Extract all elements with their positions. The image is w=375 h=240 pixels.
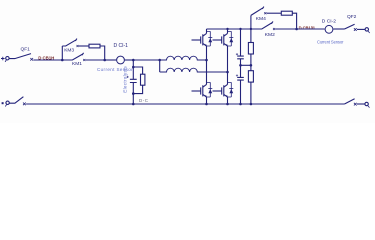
breaker QF2 blade (345, 24, 355, 29)
wire cap-resistor midpoint tie (241, 64, 251, 66)
svg-text:D CI-2: D CI-2 (322, 18, 336, 24)
svg-text:D CI-1: D CI-1 (114, 43, 129, 49)
resistor R5 (precharge) (281, 11, 292, 15)
wire resistor R5 down to node E (292, 13, 296, 29)
node rail-resistor dot (250, 103, 253, 106)
resistor R3 balancing column wire (250, 29, 252, 104)
wire QF2 x to terminal (357, 28, 365, 30)
wire bleed resistor R2 bottom (133, 85, 142, 93)
node DC+ input plus sign (1, 57, 5, 61)
contactor KM3 blade (62, 39, 77, 46)
breaker QF1 blade (9, 54, 31, 59)
node resistor mid dot (250, 64, 253, 67)
node bus-phase2 dot (226, 28, 228, 30)
contactor KM2 blade (251, 21, 273, 29)
node C3 bottom junction dot (132, 92, 135, 95)
wire KM4 to resistor R5 (267, 12, 282, 14)
contactor KM1 contact x (83, 59, 85, 61)
wire KM1 to node B (86, 59, 105, 61)
breaker QF2b blade (345, 99, 355, 104)
breaker QF1b terminal circle (5, 101, 9, 106)
breaker QF2b contact x (354, 103, 357, 106)
breaker QF1b contact x (23, 103, 26, 106)
breaker QF2 terminal circle (365, 28, 370, 33)
capacitor C1 electrolytic branch vertical wire (132, 60, 134, 104)
breaker QF2 contact x (354, 28, 357, 31)
wire node D down to lower inductor (159, 60, 161, 72)
svg-text:Electrolysis: Electrolysis (123, 66, 128, 93)
wire to bleed resistor R2 (133, 67, 142, 74)
current sensor D CI-2 circle (325, 25, 333, 33)
node phase2 junction dot (226, 71, 229, 74)
node rail junction dot (132, 103, 135, 106)
resistor R3 (upper balance) (248, 43, 253, 55)
IGBT Q3 (lower left) (192, 82, 213, 104)
contactor KM2 contact x (273, 28, 275, 30)
node C2 top junction dot (132, 66, 135, 69)
node cap top dot (239, 28, 241, 30)
node A junction dot (61, 59, 64, 62)
breaker QF1 contact x (30, 58, 33, 61)
wire node B to current sensor CI-1 (105, 59, 117, 61)
resistor R4 (lower balance) (248, 71, 253, 82)
breaker QF1 terminal circle (5, 57, 9, 62)
svg-text:D-C: D-C (139, 98, 149, 103)
capacitor C2 plates (237, 56, 244, 59)
wire node E to current sensor CI-2 (297, 28, 325, 30)
svg-text:Current Sensor: Current Sensor (317, 39, 344, 44)
node DC- terminal dot (2, 102, 4, 104)
node B junction dot (103, 59, 106, 62)
capacitor C3 polarity plus (236, 74, 238, 76)
svg-text:D CB1H: D CB1H (38, 56, 54, 61)
contactor KM4 blade (251, 7, 264, 16)
contactor KM4 contact x (264, 12, 266, 14)
breaker QF2b terminal circle (365, 102, 370, 107)
svg-text:KM2: KM2 (265, 32, 275, 38)
svg-text:KM4: KM4 (256, 16, 266, 22)
node C junction dot (132, 59, 135, 62)
wire KM4 branch up (250, 15, 252, 29)
IGBT Q1 (upper left) (192, 29, 213, 46)
node D junction dot (158, 59, 161, 62)
svg-text:QF2: QF2 (347, 14, 357, 20)
IGBT Q2 (upper right) (213, 29, 234, 46)
capacitor C2 polarity plus (236, 53, 238, 55)
resistor R1 (precharge) (89, 44, 100, 48)
inductor L1 (upper) (160, 56, 207, 60)
node rail-cap dot (239, 103, 242, 106)
node rail-phase1 dot (205, 103, 208, 106)
wire QF1 to node A (33, 59, 62, 61)
wire QF2b x to terminal (357, 103, 365, 105)
svg-text:KM3: KM3 (64, 47, 74, 53)
breaker QF1b blade (9, 97, 23, 104)
wire node A up to KM3 branch (61, 46, 63, 60)
wire KM3 to resistor R1 (79, 45, 89, 47)
svg-text:Current Sensor: Current Sensor (97, 67, 133, 72)
resistor R2 (bleed) (141, 74, 145, 85)
capacitor C2 DC-link column wire (240, 29, 242, 104)
wire sensor CI-1 to node C (125, 59, 134, 61)
node resistor top dot (250, 28, 252, 30)
node cap mid dot (239, 64, 242, 67)
current sensor D CI-1 circle (117, 56, 125, 64)
wire bottom rail (26, 103, 344, 105)
svg-text:QF1: QF1 (21, 46, 31, 52)
contactor KM1 blade (62, 53, 83, 60)
inductor L2 (lower) (160, 68, 228, 72)
capacitor C1 plates (130, 79, 137, 82)
node E junction dot (295, 28, 298, 31)
contactor KM3 contact x (77, 45, 79, 47)
wire phase2 vertical (227, 46, 229, 85)
wire sensor CI-2 to QF2 (333, 28, 344, 30)
wire phase1 vertical (206, 46, 208, 85)
wire resistor R1 to node B (100, 46, 105, 60)
wire KM2 to node E (275, 28, 296, 30)
svg-text:KM1: KM1 (72, 61, 82, 67)
capacitor C3 plates (237, 77, 244, 80)
wire node C to inductor node D (133, 59, 159, 61)
node phase1 junction dot (205, 59, 208, 62)
IGBT Q4 (lower right) (213, 82, 234, 104)
capacitor C1 polarity plus (127, 76, 129, 78)
wire DC+ bus (207, 28, 251, 30)
node rail-phase2 dot (226, 103, 229, 106)
